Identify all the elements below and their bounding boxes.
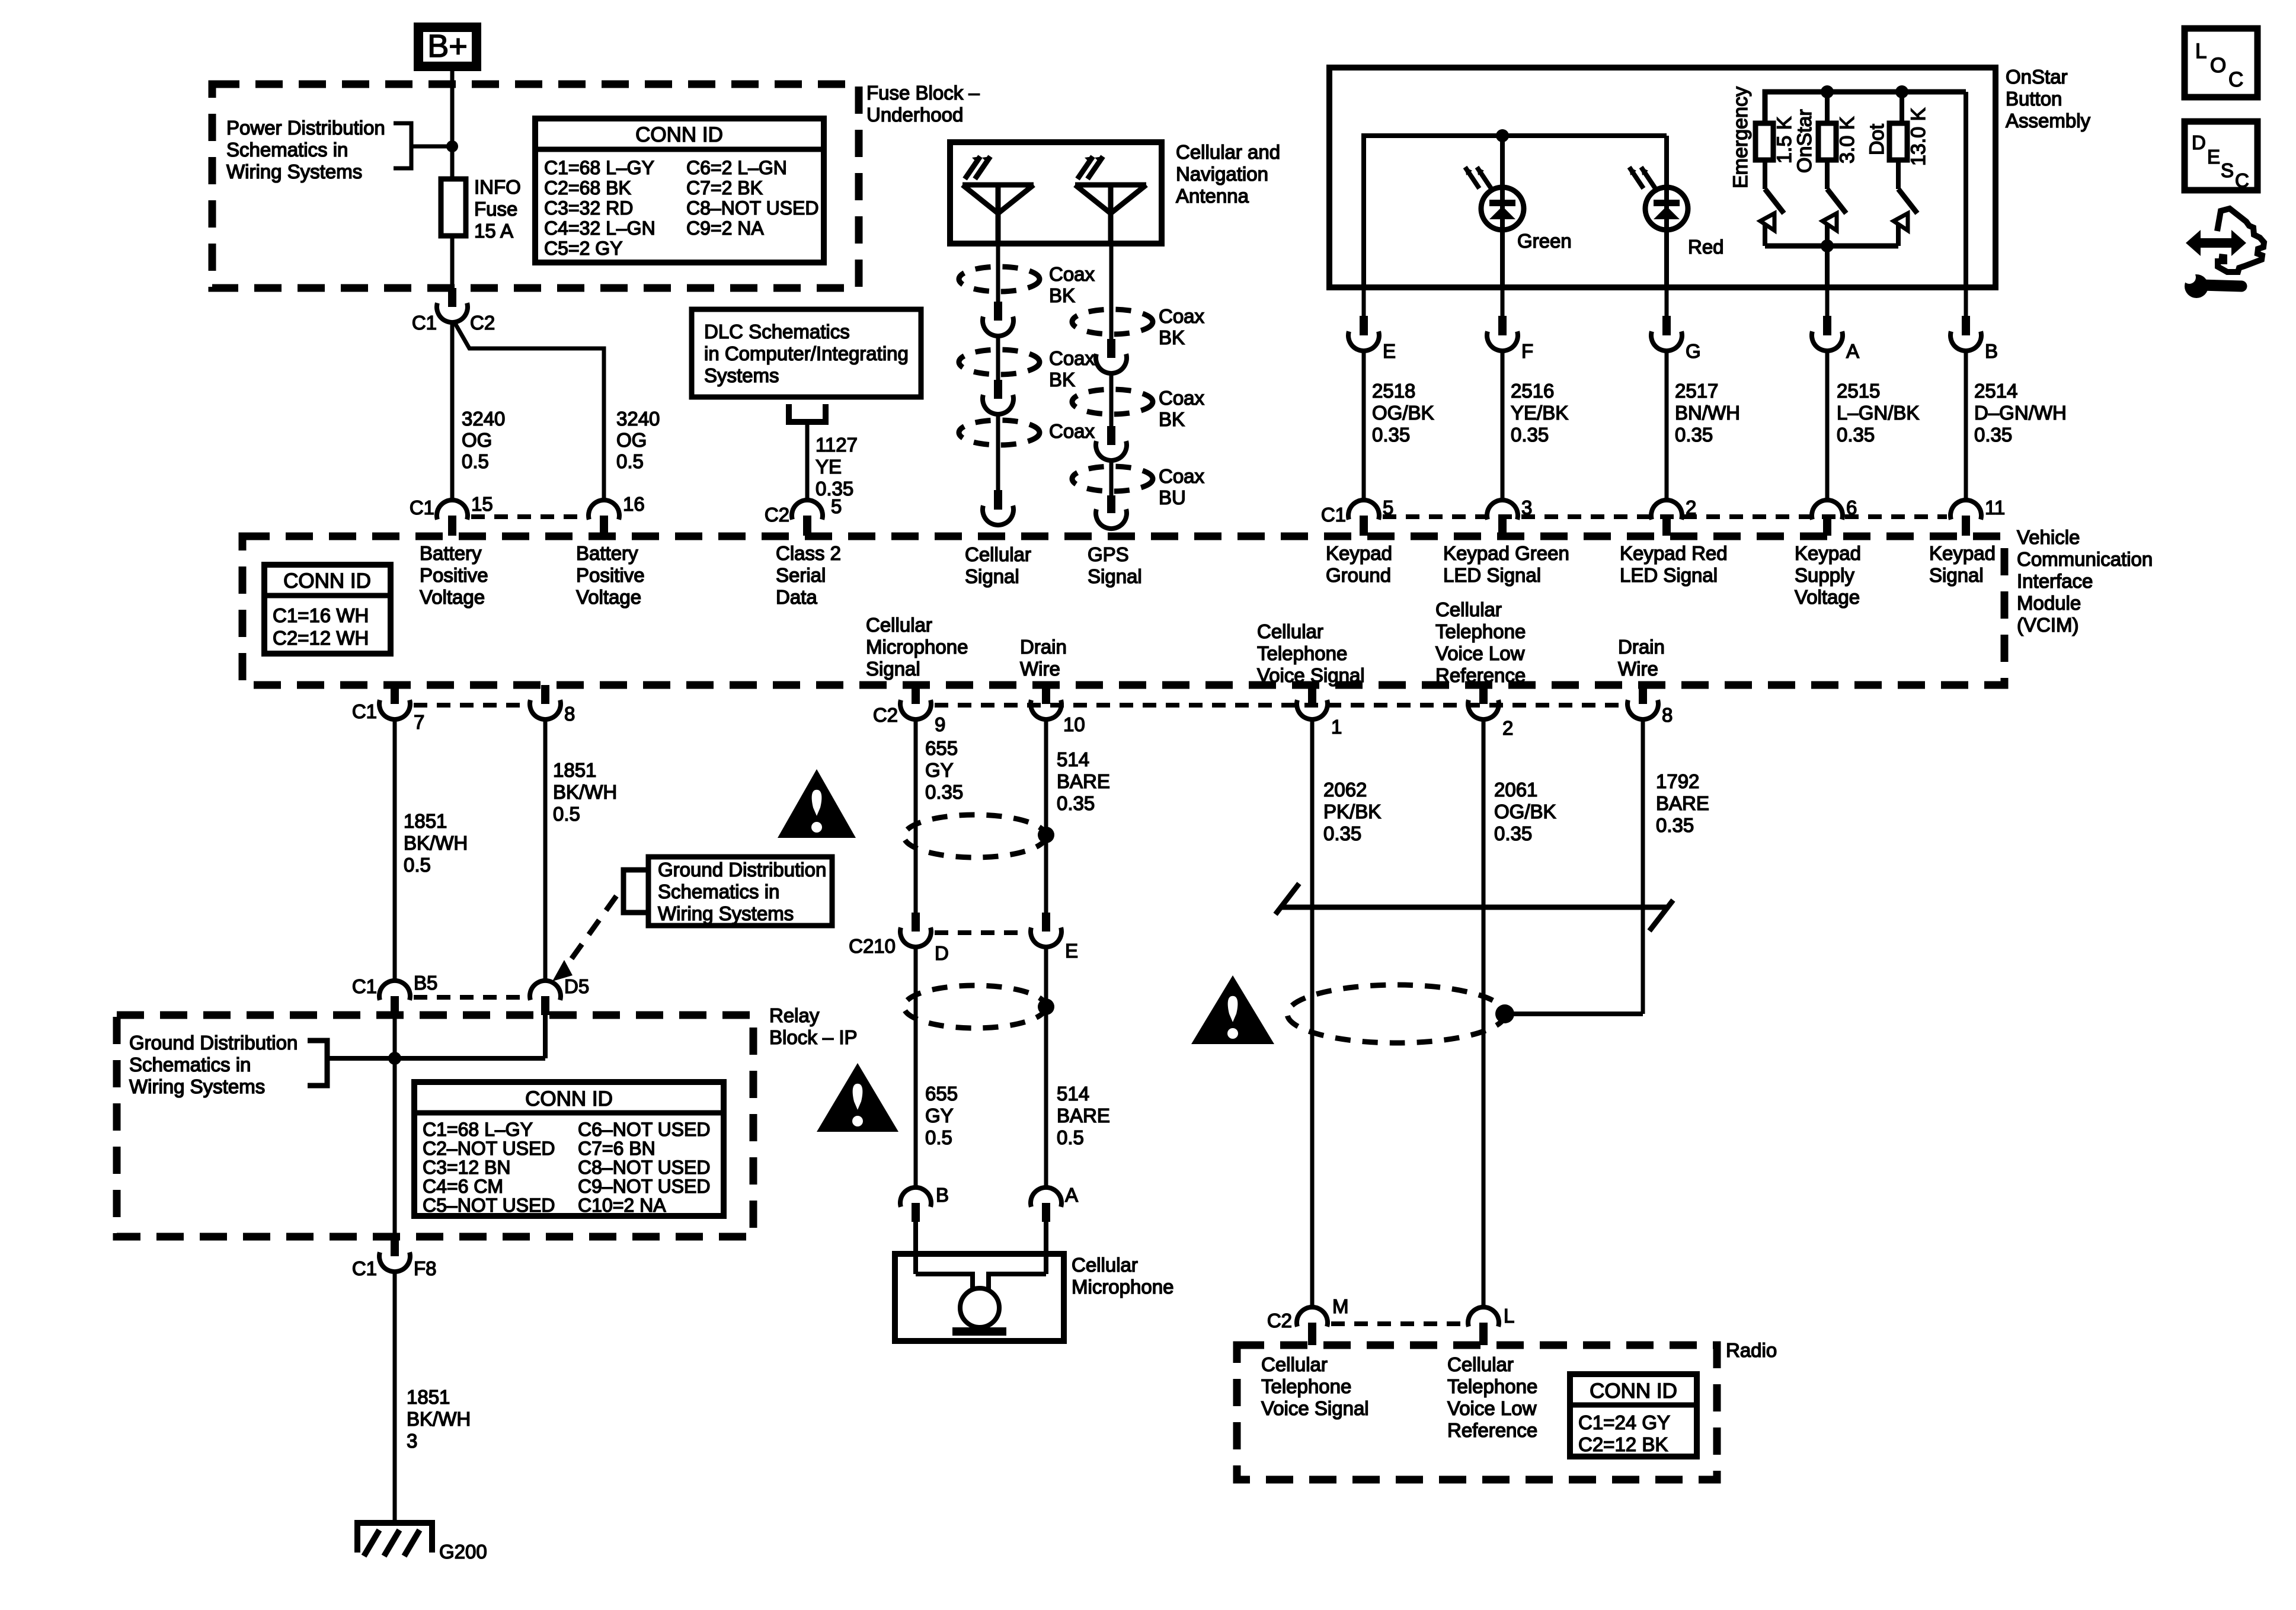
svg-text:C6=2 L–GN: C6=2 L–GN xyxy=(686,157,787,178)
svg-text:Coax: Coax xyxy=(1159,465,1205,487)
Cellular and Navigation Antenna box xyxy=(950,142,1162,244)
svg-text:C4=32 L–GN: C4=32 L–GN xyxy=(544,217,655,239)
wire keypad signal branch xyxy=(1964,92,1968,287)
svg-text:CONN ID: CONN ID xyxy=(283,569,371,593)
bracket right of ground note xyxy=(308,1041,327,1086)
inline coax connector 2 cellular xyxy=(994,380,1002,399)
svg-text:BK: BK xyxy=(1049,369,1075,391)
CONN ID table relay block xyxy=(414,1082,724,1216)
svg-text:2061: 2061 xyxy=(1494,779,1537,801)
svg-text:Signal: Signal xyxy=(866,658,920,680)
dashed connector wire keypad pins xyxy=(1383,514,1947,519)
svg-text:3.0 K: 3.0 K xyxy=(1836,116,1859,164)
wire circuit 2516 xyxy=(1501,350,1505,501)
svg-text:GY: GY xyxy=(925,1105,954,1126)
svg-text:L–GN/BK: L–GN/BK xyxy=(1837,402,1919,424)
svg-text:Reference: Reference xyxy=(1447,1419,1537,1441)
svg-text:C210: C210 xyxy=(849,935,896,957)
svg-text:3: 3 xyxy=(407,1430,417,1452)
svg-text:Voltage: Voltage xyxy=(420,586,485,608)
connector A microphone xyxy=(1031,1188,1061,1207)
svg-text:C1: C1 xyxy=(1321,504,1346,526)
svg-text:Cellular: Cellular xyxy=(1435,598,1502,620)
svg-text:Keypad: Keypad xyxy=(1929,542,1996,564)
dashed arrow to connector D5 xyxy=(563,896,616,971)
svg-text:Systems: Systems xyxy=(704,364,779,386)
svg-text:2514: 2514 xyxy=(1974,380,2017,402)
junction dot ground tie xyxy=(388,1052,401,1065)
svg-text:C2: C2 xyxy=(765,504,789,526)
connector C1 pin 5 keypad ground into VCIM xyxy=(1348,500,1379,520)
svg-text:Reference: Reference xyxy=(1435,664,1526,686)
LED green with wire xyxy=(1500,136,1505,287)
svg-text:Wiring Systems: Wiring Systems xyxy=(226,161,362,183)
svg-text:Ground: Ground xyxy=(1326,564,1391,586)
svg-text:Keypad: Keypad xyxy=(1326,542,1392,564)
svg-text:Block – IP: Block – IP xyxy=(769,1026,858,1048)
svg-text:C: C xyxy=(2228,68,2243,91)
svg-text:Microphone: Microphone xyxy=(1072,1276,1173,1298)
svg-text:C7=2 BK: C7=2 BK xyxy=(686,177,763,199)
svg-text:OG: OG xyxy=(616,429,647,451)
svg-text:Microphone: Microphone xyxy=(866,636,968,658)
svg-text:S: S xyxy=(2221,159,2234,181)
wire fuse to connector C1/C2 xyxy=(450,236,455,288)
svg-text:0.35: 0.35 xyxy=(1323,822,1361,844)
svg-text:Data: Data xyxy=(776,586,817,608)
connector C2 pin 9 VCIM output xyxy=(912,685,920,704)
wire keypad supply voltage branch xyxy=(1825,246,1830,287)
svg-text:2518: 2518 xyxy=(1372,380,1415,402)
svg-text:A: A xyxy=(1846,340,1859,362)
OnStar Button Assembly box xyxy=(1329,68,1996,287)
coax wire segment xyxy=(996,335,1000,380)
svg-text:INFO: INFO xyxy=(474,176,521,198)
connector L into radio xyxy=(1468,1307,1499,1327)
wire circuit 1851 pin7 xyxy=(393,719,397,981)
svg-text:Communication: Communication xyxy=(2017,548,2153,570)
Cellular Microphone box xyxy=(895,1254,1064,1341)
wire circuit 1792 drain xyxy=(1641,719,1645,1014)
inline coax connector 1 GPS xyxy=(1107,339,1115,358)
bracket left of ground note xyxy=(623,870,648,913)
svg-text:C1=68 L–GY: C1=68 L–GY xyxy=(544,157,654,178)
svg-text:2516: 2516 xyxy=(1511,380,1554,402)
svg-text:0.5: 0.5 xyxy=(616,450,644,472)
dashed connector wire 7-8 xyxy=(414,703,526,708)
dashed connector wire 15-16 xyxy=(471,514,585,519)
svg-text:Wire: Wire xyxy=(1618,658,1658,680)
svg-text:15: 15 xyxy=(471,493,493,515)
svg-text:Navigation: Navigation xyxy=(1176,163,1268,185)
shield ellipse microphone upper xyxy=(904,815,1046,857)
ground tie wire in relay block xyxy=(327,1056,545,1061)
svg-text:514: 514 xyxy=(1057,748,1089,770)
wire circuit 2514 xyxy=(1964,350,1968,501)
junction dot on B+ wire xyxy=(446,140,458,152)
svg-text:Voltage: Voltage xyxy=(576,586,641,608)
connector C1 pin 7 VCIM output xyxy=(391,685,399,704)
svg-text:C4=6 CM: C4=6 CM xyxy=(423,1176,503,1197)
svg-text:BARE: BARE xyxy=(1057,770,1110,792)
svg-text:Voice Low: Voice Low xyxy=(1435,642,1525,664)
bracket from note to wire xyxy=(394,123,411,168)
svg-text:Fuse Block –: Fuse Block – xyxy=(866,82,980,104)
connector E keypad ground xyxy=(1362,287,1366,316)
svg-text:0.35: 0.35 xyxy=(1057,792,1095,814)
coax wire cellular antenna xyxy=(996,244,1000,302)
svg-text:B+: B+ xyxy=(427,28,468,64)
svg-text:10: 10 xyxy=(1063,713,1085,735)
svg-text:Fuse: Fuse xyxy=(474,198,517,220)
svg-text:Battery: Battery xyxy=(420,542,482,564)
svg-text:Underhood: Underhood xyxy=(866,104,963,126)
svg-text:C: C xyxy=(2235,169,2249,191)
connector pin 2 into VCIM xyxy=(1651,500,1682,520)
svg-text:11: 11 xyxy=(1985,497,2005,518)
svg-text:LED Signal: LED Signal xyxy=(1443,564,1541,586)
svg-text:Interface: Interface xyxy=(2017,570,2093,592)
svg-text:B: B xyxy=(1985,340,1998,362)
svg-text:Keypad Green: Keypad Green xyxy=(1443,542,1569,564)
shield ellipse telephone pair xyxy=(1287,985,1505,1043)
svg-text:8: 8 xyxy=(1662,704,1673,726)
svg-text:Emergency: Emergency xyxy=(1729,87,1752,188)
svg-text:D5: D5 xyxy=(564,975,589,997)
svg-text:BK: BK xyxy=(1159,327,1185,348)
svg-text:C2–NOT USED: C2–NOT USED xyxy=(423,1138,555,1159)
svg-text:Battery: Battery xyxy=(576,542,638,564)
inline coax connector 2 GPS xyxy=(1107,426,1115,445)
svg-text:Coax: Coax xyxy=(1159,387,1205,409)
svg-text:BK: BK xyxy=(1049,284,1075,306)
wire 514 lower xyxy=(1044,946,1048,1189)
coax shield ellipse 3 cellular xyxy=(959,420,1040,445)
svg-text:1: 1 xyxy=(1331,716,1342,738)
svg-text:Positive: Positive xyxy=(420,564,488,586)
svg-text:Drain: Drain xyxy=(1618,636,1665,658)
junction dot switch rail 2 xyxy=(1821,85,1834,98)
wire circuit 2517 xyxy=(1665,350,1669,501)
svg-text:16: 16 xyxy=(623,493,645,515)
wire circuit 655 upper xyxy=(914,719,918,915)
wire circuit 514 upper xyxy=(1044,719,1048,915)
svg-text:Positive: Positive xyxy=(576,564,645,586)
svg-text:G: G xyxy=(1686,340,1701,362)
svg-text:C9=2 NA: C9=2 NA xyxy=(686,217,764,239)
svg-text:OG/BK: OG/BK xyxy=(1372,402,1434,424)
GPS antenna symbol xyxy=(1075,183,1146,188)
switch bottom rail xyxy=(1765,244,1898,249)
svg-text:0.5: 0.5 xyxy=(925,1126,952,1148)
svg-text:Radio: Radio xyxy=(1726,1339,1777,1361)
svg-text:L: L xyxy=(2195,40,2207,63)
connector B keypad signal xyxy=(1964,287,1968,316)
svg-text:1792: 1792 xyxy=(1656,770,1699,792)
svg-text:0.35: 0.35 xyxy=(1675,424,1713,446)
inline coax connector 1 cellular xyxy=(994,302,1002,321)
shield drain dot lower xyxy=(1038,998,1054,1015)
svg-text:BARE: BARE xyxy=(1656,792,1709,814)
svg-text:9: 9 xyxy=(935,713,945,735)
svg-text:A: A xyxy=(1065,1184,1078,1206)
svg-text:Voltage: Voltage xyxy=(1795,586,1860,608)
svg-text:3240: 3240 xyxy=(616,408,660,430)
connector C1 pin 15 into VCIM xyxy=(437,500,468,520)
ground G200 symbol xyxy=(354,1521,360,1553)
svg-text:C1: C1 xyxy=(352,1257,377,1279)
svg-text:1.5 K: 1.5 K xyxy=(1773,116,1796,164)
coax wire segment GPS xyxy=(1109,372,1114,427)
coax shield ellipse 3 GPS xyxy=(1072,466,1153,491)
wire 655 lower xyxy=(914,946,918,1189)
svg-text:(VCIM): (VCIM) xyxy=(2017,614,2078,636)
resistor 13.0 K dot button xyxy=(1889,123,1907,160)
coax shield ellipse 2 GPS xyxy=(1072,389,1153,414)
coax wire segment GPS xyxy=(1109,459,1114,495)
svg-text:E: E xyxy=(1065,940,1078,962)
DESC icon box xyxy=(2185,121,2257,190)
microphone element circle xyxy=(960,1288,999,1327)
svg-text:GPS: GPS xyxy=(1088,543,1129,565)
svg-text:C1: C1 xyxy=(410,497,434,518)
svg-text:Keypad Red: Keypad Red xyxy=(1620,542,1728,564)
svg-text:D: D xyxy=(935,942,949,964)
svg-text:OG/BK: OG/BK xyxy=(1494,801,1556,822)
svg-text:C1: C1 xyxy=(352,700,377,722)
cellular antenna symbol xyxy=(962,183,1034,188)
svg-text:655: 655 xyxy=(925,737,958,759)
svg-text:CONN ID: CONN ID xyxy=(525,1087,613,1110)
svg-text:B5: B5 xyxy=(414,972,437,994)
shield ellipse microphone lower xyxy=(904,985,1046,1028)
wire circuit 2062 xyxy=(1310,719,1315,1307)
LED red with wire xyxy=(1664,136,1669,287)
svg-text:YE/BK: YE/BK xyxy=(1511,402,1568,424)
svg-text:C10=2 NA: C10=2 NA xyxy=(578,1195,666,1216)
connector C1 B5 into relay block xyxy=(379,981,410,1000)
svg-text:Schematics in: Schematics in xyxy=(129,1054,251,1076)
svg-text:0.35: 0.35 xyxy=(1511,424,1549,446)
svg-text:Coax: Coax xyxy=(1159,305,1205,327)
svg-text:2062: 2062 xyxy=(1323,779,1367,801)
svg-text:BN/WH: BN/WH xyxy=(1675,402,1740,424)
svg-text:Ground Distribution: Ground Distribution xyxy=(658,859,826,881)
svg-text:Drain: Drain xyxy=(1020,636,1067,658)
CONN ID table VCIM xyxy=(264,565,391,654)
connector B microphone xyxy=(900,1188,931,1207)
coax shield ellipse 1 GPS xyxy=(1072,309,1153,334)
svg-text:Cellular: Cellular xyxy=(1257,620,1323,642)
connector cellular signal into VCIM xyxy=(994,490,1002,510)
switch top rail xyxy=(1765,92,1966,122)
switch blade OnStar xyxy=(1825,92,1830,123)
svg-text:Supply: Supply xyxy=(1795,564,1854,586)
junction dot switch rail 3 xyxy=(1895,85,1908,98)
svg-text:C3=12 BN: C3=12 BN xyxy=(423,1157,511,1178)
svg-text:PK/BK: PK/BK xyxy=(1323,801,1381,822)
shield drain dot upper xyxy=(1038,827,1054,843)
svg-text:C1=24 GY: C1=24 GY xyxy=(1578,1411,1670,1433)
svg-text:655: 655 xyxy=(925,1083,958,1105)
svg-text:1851: 1851 xyxy=(553,759,596,781)
svg-text:C8–NOT USED: C8–NOT USED xyxy=(578,1157,710,1178)
dashed connector wire B5-D5 xyxy=(414,995,526,1000)
svg-text:Serial: Serial xyxy=(776,564,826,586)
svg-text:OnStar: OnStar xyxy=(2006,66,2068,88)
svg-text:OnStar: OnStar xyxy=(1793,109,1816,173)
connector pin 2 VCIM output xyxy=(1479,685,1488,704)
wire keypad ground rail xyxy=(1364,133,1667,138)
svg-text:8: 8 xyxy=(564,703,575,725)
svg-text:13.0 K: 13.0 K xyxy=(1907,107,1930,166)
connector pin 11 into VCIM xyxy=(1950,500,1981,520)
svg-text:Power Distribution: Power Distribution xyxy=(226,117,385,139)
svg-text:0.35: 0.35 xyxy=(1494,822,1532,844)
svg-text:0.35: 0.35 xyxy=(1372,424,1410,446)
connector C210 D xyxy=(912,913,920,932)
svg-text:Wiring Systems: Wiring Systems xyxy=(129,1076,265,1097)
svg-text:in Computer/Integrating: in Computer/Integrating xyxy=(704,343,909,364)
svg-text:BK: BK xyxy=(1159,408,1185,430)
connector D5 into relay block xyxy=(530,981,561,1000)
CONN ID table fuse block underhood xyxy=(535,119,824,263)
connector pin 3 into VCIM xyxy=(1487,500,1518,520)
connector C1 F8 relay block output xyxy=(391,1237,399,1256)
svg-text:D: D xyxy=(2192,132,2206,153)
svg-text:Telephone: Telephone xyxy=(1447,1375,1537,1397)
svg-text:Signal: Signal xyxy=(1088,565,1142,587)
connector A keypad supply xyxy=(1825,287,1830,316)
svg-text:1851: 1851 xyxy=(404,810,447,832)
connector pin 8 drain VCIM output xyxy=(1639,685,1647,704)
wire pin7 ground through relay block xyxy=(393,1015,397,1237)
svg-text:0.5: 0.5 xyxy=(1057,1126,1084,1148)
wire circuit 2061 xyxy=(1482,719,1486,1307)
svg-text:D–GN/WH: D–GN/WH xyxy=(1974,402,2067,424)
LOC icon box xyxy=(2185,28,2257,97)
switch blade dot xyxy=(1900,92,1904,123)
resistor 1.5 K emergency xyxy=(1755,123,1773,160)
svg-text:0.35: 0.35 xyxy=(1656,814,1694,836)
svg-text:1851: 1851 xyxy=(407,1386,450,1408)
svg-text:Signal: Signal xyxy=(965,565,1019,587)
svg-text:C2=12 BK: C2=12 BK xyxy=(1578,1433,1668,1455)
connector pin 1 VCIM output xyxy=(1308,685,1316,704)
svg-text:Voice Signal: Voice Signal xyxy=(1257,664,1365,686)
connector C1/C2 fuse block output xyxy=(448,288,456,307)
svg-text:Ground Distribution: Ground Distribution xyxy=(129,1032,298,1054)
dashed connector wire M-L xyxy=(1331,1321,1464,1326)
svg-text:YE: YE xyxy=(816,456,842,478)
svg-text:C1: C1 xyxy=(352,975,377,997)
svg-text:BK/WH: BK/WH xyxy=(407,1408,471,1430)
svg-text:Wiring Systems: Wiring Systems xyxy=(658,902,794,924)
svg-text:CONN ID: CONN ID xyxy=(635,123,723,146)
svg-text:F: F xyxy=(1521,340,1533,362)
fuse block dashed box xyxy=(212,84,859,288)
svg-text:C1=16 WH: C1=16 WH xyxy=(273,604,369,626)
svg-text:Schematics in: Schematics in xyxy=(658,881,779,902)
svg-text:1127: 1127 xyxy=(816,434,858,456)
svg-text:L: L xyxy=(1504,1305,1514,1327)
svg-text:C2: C2 xyxy=(873,704,898,726)
svg-text:Green: Green xyxy=(1517,230,1572,252)
wire circuit 2518 xyxy=(1362,350,1366,501)
svg-text:Button: Button xyxy=(2006,88,2062,110)
twisted pair break symbol xyxy=(1281,905,1668,910)
switch blade emergency xyxy=(1763,160,1767,189)
svg-text:Coax: Coax xyxy=(1049,420,1095,442)
junction dot keypad supply xyxy=(1821,239,1834,252)
svg-text:C2: C2 xyxy=(1267,1310,1292,1331)
svg-text:Wire: Wire xyxy=(1020,658,1060,680)
svg-text:Coax: Coax xyxy=(1049,263,1095,285)
svg-text:0.5: 0.5 xyxy=(404,854,431,876)
connector F keypad green xyxy=(1501,287,1505,316)
coax shield ellipse 1 cellular xyxy=(959,267,1040,292)
wire circuit 3240 branch C2 xyxy=(455,324,604,500)
svg-text:2517: 2517 xyxy=(1675,380,1718,402)
svg-text:Keypad: Keypad xyxy=(1795,542,1861,564)
svg-text:0.35: 0.35 xyxy=(1974,424,2012,446)
svg-text:E: E xyxy=(1383,340,1396,362)
svg-text:Voice Low: Voice Low xyxy=(1447,1397,1537,1419)
svg-text:C9–NOT USED: C9–NOT USED xyxy=(578,1176,710,1197)
Relay Block dashed box xyxy=(117,1015,753,1237)
svg-text:BK/WH: BK/WH xyxy=(404,832,468,854)
coax shield ellipse 2 cellular xyxy=(959,350,1040,375)
wire B+ to fuse xyxy=(450,71,455,179)
svg-text:M: M xyxy=(1332,1295,1349,1317)
svg-text:BK/WH: BK/WH xyxy=(553,781,617,803)
junction dot green LED tap xyxy=(1496,129,1509,142)
DLC Schematics note box xyxy=(692,309,921,397)
coax wire segment xyxy=(996,413,1000,491)
svg-text:O: O xyxy=(2210,54,2226,77)
warning symbol 3 xyxy=(1191,975,1274,1044)
drain wire elbow to shield xyxy=(1512,1012,1643,1016)
schematic navigation icon vehicle outline xyxy=(2217,209,2264,272)
svg-text:C1: C1 xyxy=(412,312,437,334)
svg-text:C2=12 WH: C2=12 WH xyxy=(273,627,369,649)
connector GPS signal into VCIM xyxy=(1107,495,1115,513)
svg-text:Vehicle: Vehicle xyxy=(2017,526,2080,548)
svg-text:GY: GY xyxy=(925,759,954,781)
svg-text:2: 2 xyxy=(1502,717,1513,739)
svg-text:Schematics in: Schematics in xyxy=(226,139,348,161)
Ground Distribution note box right xyxy=(648,857,832,926)
svg-text:Cellular and: Cellular and xyxy=(1176,141,1280,163)
svg-text:Antenna: Antenna xyxy=(1176,185,1249,207)
wire circuit 1851 pin8 xyxy=(543,719,548,981)
svg-text:0.35: 0.35 xyxy=(925,781,963,803)
svg-text:C2=68 BK: C2=68 BK xyxy=(544,177,631,199)
svg-text:Cellular: Cellular xyxy=(866,614,932,636)
svg-text:C7=6 BN: C7=6 BN xyxy=(578,1138,655,1159)
microphone element base bar xyxy=(952,1327,1006,1336)
connector C210 E xyxy=(1042,913,1050,932)
svg-text:3240: 3240 xyxy=(462,408,505,430)
svg-text:7: 7 xyxy=(414,711,424,733)
svg-text:B: B xyxy=(936,1184,949,1206)
svg-text:Coax: Coax xyxy=(1049,347,1095,369)
CONN ID table radio xyxy=(1570,1374,1697,1457)
connector C2 pin 5 into VCIM xyxy=(792,500,823,520)
wire circuit 1127 xyxy=(805,422,810,501)
svg-text:Cellular: Cellular xyxy=(1261,1353,1328,1375)
wire circuit 3240 branch C1 xyxy=(450,322,455,500)
